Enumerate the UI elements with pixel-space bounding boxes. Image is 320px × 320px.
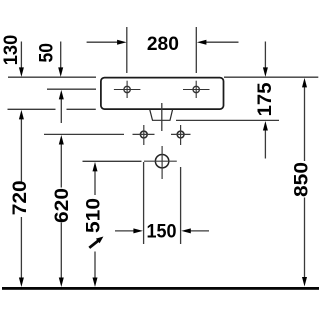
drain circle [144, 146, 177, 179]
floor line [2, 287, 319, 290]
dim 150 arrow tail left [115, 230, 135, 232]
dim 280 arrow tail right [206, 41, 239, 43]
arrow 510 up [93, 162, 98, 172]
svg-text:510: 510 [83, 198, 105, 233]
dim 50 lower line [60, 99, 62, 124]
arrow 620 down [59, 278, 64, 288]
arrow 280 right points left [197, 40, 207, 45]
dim 175 upper line [264, 42, 266, 69]
arrow 850 up [302, 78, 307, 88]
svg-text:280: 280 [147, 33, 179, 55]
svg-text:850: 850 [291, 162, 313, 197]
node basin-bottom reference line [8, 108, 56, 110]
svg-text:130: 130 [0, 35, 22, 66]
svg-text:50: 50 [35, 43, 57, 63]
washbasin outline [101, 78, 224, 110]
dim 50 upper line [60, 42, 62, 69]
dim 850 line [304, 87, 306, 162]
arrow 280 left points right [117, 40, 127, 45]
fixing hole right [171, 125, 191, 145]
leader arrow near 510 [89, 237, 103, 248]
dim 175 lower line [264, 130, 266, 159]
dim 720 line [20, 119, 22, 182]
dim 620 line [60, 144, 62, 188]
arrow 175 down [263, 67, 268, 77]
tap hole right crosshair [183, 81, 210, 98]
svg-text:150: 150 [147, 221, 177, 243]
tap hole left crosshair [114, 81, 140, 98]
arrow 175 up [263, 121, 268, 131]
node drain reference line [83, 160, 142, 162]
arrow 50 down [58, 67, 63, 77]
svg-text:620: 620 [51, 188, 73, 223]
dim 510 line [94, 171, 96, 196]
node 175 reference line [176, 119, 279, 121]
node tap-hole level line [47, 88, 96, 90]
dim 280 extension line right [195, 27, 197, 73]
arrow 720 down [19, 278, 24, 288]
arrow 620 up [59, 135, 64, 145]
overflow trapezoid [150, 110, 173, 121]
arrow 150 left points right [133, 228, 143, 233]
wall line left segment [8, 76, 96, 78]
dim 130 upper line [20, 42, 22, 69]
dim 280 arrow tail left [87, 41, 118, 43]
dim 150 extension line right [180, 167, 182, 244]
arrow 510 down [93, 278, 98, 288]
center extension line through trapezoid [161, 103, 163, 131]
arrow 720 up [19, 110, 24, 120]
svg-text:175: 175 [254, 82, 276, 116]
arrow 130 down [19, 67, 24, 77]
arrow 150 right points left [181, 228, 191, 233]
node fixing-hole reference line [44, 133, 124, 135]
svg-text:720: 720 [9, 180, 31, 215]
dim 150 arrow tail right [190, 230, 209, 232]
dim 280 extension line left [126, 27, 128, 73]
arrow 850 down [302, 277, 307, 287]
arrow 50 up [59, 90, 64, 100]
fixing hole left [133, 125, 155, 145]
dim 150 extension line left [143, 162, 145, 244]
wall line right segment [224, 76, 318, 78]
